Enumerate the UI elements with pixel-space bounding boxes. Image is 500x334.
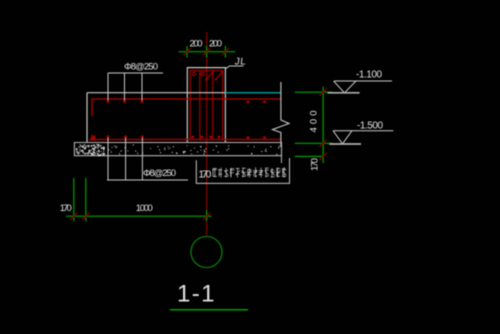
svg-text:1000: 1000 [136, 203, 153, 214]
note box for cushion text [196, 158, 289, 183]
svg-text:170: 170 [310, 158, 321, 171]
svg-text:170: 170 [198, 169, 211, 181]
svg-text:170: 170 [60, 203, 72, 214]
note text (Chinese pseudo glyphs) 170厚素砼垫层及聚氨酯防水做法 [212, 167, 286, 177]
elevation marker -1.500 [329, 121, 393, 145]
dimension line 200/200 (top) [179, 46, 236, 58]
leader lines from top label to stirrups [108, 73, 142, 101]
right extension lines (green) [295, 87, 333, 163]
rebar dots top of JL [192, 72, 195, 75]
beam left edge (gray) [86, 93, 88, 143]
section bubble circle [191, 237, 222, 268]
break line (zigzag) at right end of beam [273, 82, 290, 147]
stirrup ticks + dots on bottom rebar (left) [108, 136, 142, 142]
title underline (green) [170, 309, 248, 311]
tick slashes on right vertical dimension [320, 89, 327, 96]
svg-text:-1.500: -1.500 [357, 121, 383, 132]
leader lines from bottom stirrups to bottom label [108, 138, 142, 181]
stirrup dots on bottom rebar (right) [247, 136, 250, 139]
stirrup hook slashes top of JL [206, 71, 214, 81]
centerline (red) of JL beam [206, 32, 208, 236]
cushion band outline (gray) [74, 143, 281, 156]
beam top line right of JL (teal) [225, 92, 281, 94]
stirrup rectangle inside JL (red) [190, 71, 223, 140]
tick slashes on bottom dimension [70, 213, 77, 220]
column/beam JL section outline (gray) [187, 68, 225, 143]
rebar dots bottom of JL [191, 136, 194, 139]
svg-text:200: 200 [190, 39, 203, 50]
bottom rebar hook arrowhead [89, 135, 96, 140]
cushion band speckles [76, 144, 280, 156]
svg-text:400: 400 [309, 111, 320, 133]
bottom dimension lines (green) [66, 178, 212, 221]
bottom rebar of beam with left hook (red) [92, 135, 281, 140]
label JL with leader [225, 57, 246, 69]
beam top line (gray) [87, 92, 225, 94]
svg-text:Φ8@250: Φ8@250 [143, 168, 176, 179]
vertical rebar lines inside JL [199, 71, 201, 140]
band right edge extension down [281, 156, 283, 163]
stirrup ticks + dots on top rebar (left) [108, 97, 142, 103]
svg-text:-1.100: -1.100 [356, 70, 382, 81]
tick slashes on 200/200 dimension [183, 48, 190, 55]
stirrup dots on top rebar (right) [247, 101, 250, 104]
svg-text:200: 200 [209, 39, 222, 50]
top rebar of beam with left hook (red) [92, 99, 281, 116]
svg-text:1-1: 1-1 [177, 281, 215, 308]
svg-text:Φ8@250: Φ8@250 [124, 62, 158, 73]
elevation marker -1.100 [328, 70, 393, 93]
